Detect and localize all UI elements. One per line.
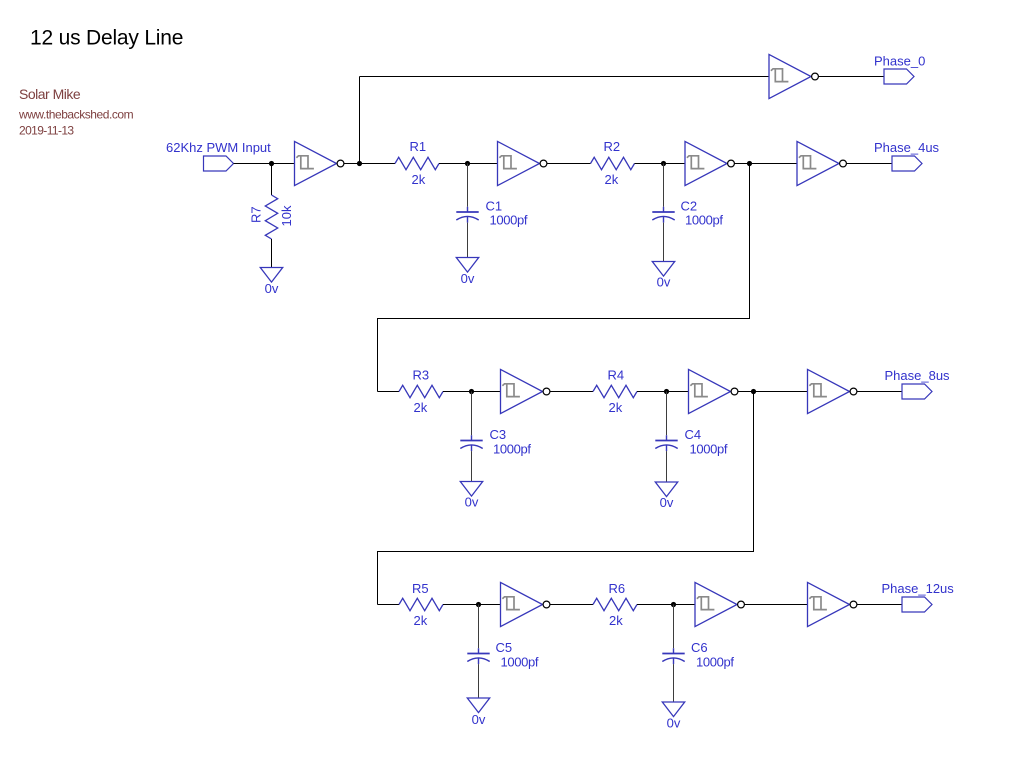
node B junction xyxy=(357,161,362,166)
wire R1 to node C to U2 input xyxy=(439,163,498,165)
resistor R4 xyxy=(593,385,637,397)
svg-text:R2: R2 xyxy=(604,139,621,154)
node F junction xyxy=(469,389,474,394)
svg-text:Phase_12us: Phase_12us xyxy=(882,581,955,596)
port Phase_0 xyxy=(884,69,914,84)
wire node E down to row 2 xyxy=(378,164,750,392)
svg-text:2019-11-13: 2019-11-13 xyxy=(19,124,74,138)
wire R7 to ground xyxy=(271,239,273,268)
svg-text:1000pf: 1000pf xyxy=(501,654,539,669)
wire U2 output to R2 xyxy=(547,163,591,165)
wire R2 to node D to U3 input xyxy=(635,163,686,165)
svg-text:62Khz PWM Input: 62Khz PWM Input xyxy=(166,140,271,155)
svg-text:1000pf: 1000pf xyxy=(690,441,728,456)
wire U4 output to Phase_4us port xyxy=(847,163,893,165)
svg-text:R4: R4 xyxy=(608,368,625,383)
wire U8 output to R6 xyxy=(550,604,593,606)
wire node A to U1 input xyxy=(272,163,295,165)
wire input port to node A xyxy=(234,163,272,165)
ground below R7 xyxy=(260,268,282,283)
node C junction xyxy=(465,161,470,166)
wire node H down to row 3 xyxy=(378,392,754,605)
svg-text:Phase_8us: Phase_8us xyxy=(885,368,951,383)
node D junction xyxy=(661,161,666,166)
wire R3 to node F to U5 input xyxy=(443,391,501,393)
node A junction xyxy=(269,161,274,166)
input port xyxy=(204,156,234,171)
svg-text:2k: 2k xyxy=(414,400,428,415)
node I junction xyxy=(476,602,481,607)
svg-text:www.thebackshed.com: www.thebackshed.com xyxy=(18,107,134,121)
svg-text:0v: 0v xyxy=(465,494,479,509)
wire U7 output to Phase_8us port xyxy=(857,391,902,393)
wire node J down to C6 xyxy=(673,605,675,649)
resistor R5 xyxy=(399,598,443,610)
ground below C3 xyxy=(460,482,482,497)
wire C4 to ground xyxy=(666,451,668,482)
svg-text:R5: R5 xyxy=(412,581,429,596)
resistor R1 xyxy=(395,157,439,169)
svg-text:10k: 10k xyxy=(279,205,294,226)
wire row3 start to R5 xyxy=(378,604,400,606)
inverter U9 xyxy=(695,582,744,626)
svg-text:C1: C1 xyxy=(486,199,503,214)
svg-text:2k: 2k xyxy=(414,613,428,628)
wire U5 output to R4 xyxy=(550,391,593,393)
svg-text:0v: 0v xyxy=(461,271,475,286)
wire C2 to ground xyxy=(663,223,665,262)
svg-text:Solar Mike: Solar Mike xyxy=(19,86,81,102)
svg-text:0v: 0v xyxy=(660,495,674,510)
svg-text:1000pf: 1000pf xyxy=(490,213,528,228)
wire U3 output to node E to U4 input xyxy=(735,163,798,165)
ground below C4 xyxy=(655,482,677,497)
wire row2 start to R3 xyxy=(378,391,400,393)
wire U1 output to node B and R1 xyxy=(344,163,395,165)
node E junction xyxy=(747,161,752,166)
inverter U4 xyxy=(797,141,846,185)
svg-text:2k: 2k xyxy=(412,172,426,187)
wire node A down to R7 xyxy=(271,164,273,196)
capacitor C5 xyxy=(467,648,489,664)
wire R4 to node G to U6 input xyxy=(637,391,689,393)
svg-text:C5: C5 xyxy=(496,640,513,655)
node J junction xyxy=(671,602,676,607)
svg-text:12 us Delay Line: 12 us Delay Line xyxy=(30,26,183,49)
capacitor C1 xyxy=(456,207,478,223)
resistor R3 xyxy=(399,385,443,397)
svg-text:0v: 0v xyxy=(657,275,671,290)
svg-text:C6: C6 xyxy=(691,640,708,655)
capacitor C3 xyxy=(460,435,482,451)
ground below C2 xyxy=(652,262,674,277)
resistor R2 xyxy=(591,157,635,169)
node H junction xyxy=(751,389,756,394)
node G junction xyxy=(664,389,669,394)
inverter U2 xyxy=(498,141,547,185)
svg-text:0v: 0v xyxy=(265,281,279,296)
svg-text:Phase_0: Phase_0 xyxy=(874,53,925,68)
svg-text:C4: C4 xyxy=(685,427,702,442)
capacitor C4 xyxy=(655,435,677,451)
wire U6 output to node H to U7 input xyxy=(738,391,808,393)
svg-text:1000pf: 1000pf xyxy=(696,654,734,669)
svg-text:C2: C2 xyxy=(681,199,698,214)
svg-text:Phase_4us: Phase_4us xyxy=(874,140,940,155)
wire node C down to C1 xyxy=(467,164,469,207)
svg-text:1000pf: 1000pf xyxy=(685,213,723,228)
inverter U6 xyxy=(689,369,738,413)
port Phase_4us xyxy=(892,156,922,171)
wire U9 output to U11 input xyxy=(745,604,808,606)
ground below C1 xyxy=(456,258,478,273)
wire top rail to Phase_0 inverter xyxy=(360,76,770,78)
inverter U7 xyxy=(808,369,857,413)
wire C6 to ground xyxy=(673,664,675,702)
inverter U1 xyxy=(295,141,344,185)
svg-text:0v: 0v xyxy=(472,712,486,727)
inverter U10 (Phase_0 buffer) xyxy=(769,54,818,98)
svg-text:R3: R3 xyxy=(413,368,430,383)
port Phase_8us xyxy=(902,384,932,399)
resistor R6 xyxy=(593,598,637,610)
wire U11 output to Phase_12us port xyxy=(857,604,902,606)
svg-text:R1: R1 xyxy=(410,139,427,154)
resistor R7 xyxy=(265,195,277,239)
ground below C5 xyxy=(467,698,489,713)
inverter U11 xyxy=(808,582,857,626)
wire C1 to ground xyxy=(467,223,469,258)
wire R5 to node I to U8 input xyxy=(443,604,501,606)
svg-text:2k: 2k xyxy=(609,400,623,415)
wire U10 output to Phase_0 port xyxy=(819,76,885,78)
wire C3 to ground xyxy=(471,451,473,481)
wire node F down to C3 xyxy=(471,392,473,436)
svg-text:1000pf: 1000pf xyxy=(493,441,531,456)
svg-text:2k: 2k xyxy=(605,172,619,187)
wire node G down to C4 xyxy=(666,392,668,436)
inverter U8 xyxy=(501,582,550,626)
svg-text:C3: C3 xyxy=(490,427,507,442)
svg-text:R7: R7 xyxy=(249,206,264,223)
wire node I down to C5 xyxy=(478,605,480,649)
svg-text:2k: 2k xyxy=(609,613,623,628)
wire R6 to node J to U9 input xyxy=(637,604,695,606)
capacitor C6 xyxy=(662,648,684,664)
svg-text:0v: 0v xyxy=(667,716,681,731)
port Phase_12us xyxy=(902,597,932,612)
inverter U3 xyxy=(685,141,734,185)
wire riser node B up to top rail xyxy=(359,77,361,164)
svg-text:R6: R6 xyxy=(609,581,626,596)
wire C5 to ground xyxy=(478,664,480,698)
capacitor C2 xyxy=(652,207,674,223)
inverter U5 xyxy=(501,369,550,413)
ground below C6 xyxy=(662,702,684,717)
wire node D down to C2 xyxy=(663,164,665,207)
